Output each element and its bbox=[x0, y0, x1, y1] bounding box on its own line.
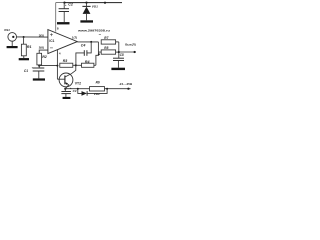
transistor VT2 bbox=[59, 65, 76, 88]
diode VD1 bbox=[82, 3, 90, 21]
wire R4 to output bus bbox=[96, 52, 99, 65]
wire IC1 pin4 to VT2 base bbox=[57, 50, 65, 79]
wire positive supply rail bbox=[56, 2, 122, 4]
svg-text:+: + bbox=[32, 65, 34, 69]
IC1 minus mark bbox=[50, 47, 53, 49]
svg-text:R6: R6 bbox=[96, 81, 100, 85]
wire left bus R7 R8 bbox=[98, 42, 101, 52]
node bus/R8 bbox=[118, 51, 120, 53]
node supply terminal bbox=[127, 88, 129, 90]
svg-text:C3: C3 bbox=[73, 89, 77, 93]
node VT2 emitter / C3 / rail bbox=[64, 88, 66, 90]
svg-text:+: + bbox=[70, 86, 72, 90]
node R4/R8 bbox=[98, 53, 100, 55]
resistor R3 bbox=[60, 63, 76, 67]
svg-text:R8: R8 bbox=[104, 46, 108, 50]
IC1 plus mark bbox=[50, 33, 53, 36]
resistor R7 bbox=[101, 40, 119, 44]
node input/R1 bbox=[23, 36, 25, 38]
capacitor C4 bbox=[76, 42, 91, 65]
resistor R6 bbox=[90, 87, 105, 91]
svg-text:C1: C1 bbox=[24, 69, 28, 73]
node output/C4 bbox=[90, 41, 92, 43]
wire inverting input bbox=[39, 50, 48, 53]
svg-text:C5: C5 bbox=[120, 53, 124, 57]
svg-text:R3: R3 bbox=[63, 59, 68, 63]
svg-text:8: 8 bbox=[57, 27, 59, 31]
svg-text:XS1: XS1 bbox=[3, 28, 10, 32]
resistor R2 bbox=[37, 53, 42, 65]
ground under R1 bbox=[19, 58, 29, 60]
svg-text:R2: R2 bbox=[42, 55, 47, 59]
node VD2 right tap bbox=[106, 88, 108, 90]
node R2/C1/feedback bbox=[38, 65, 40, 67]
node rail junction bbox=[104, 2, 106, 4]
svg-text:C2: C2 bbox=[68, 2, 73, 6]
ground under C3 bbox=[63, 97, 71, 99]
svg-text:1(7): 1(7) bbox=[72, 36, 77, 40]
svg-text:Вых(Л): Вых(Л) bbox=[125, 42, 136, 46]
wire negative rail bbox=[65, 88, 130, 90]
svg-text:4: 4 bbox=[59, 52, 61, 56]
wire right output bus bbox=[118, 42, 120, 58]
wire to output terminal bbox=[119, 51, 136, 53]
svg-text:2(6): 2(6) bbox=[39, 46, 44, 50]
op-amp IC1 bbox=[48, 30, 77, 54]
svg-text:VD2: VD2 bbox=[94, 92, 100, 96]
node pin4/R3 bbox=[56, 65, 58, 67]
capacitor C1 bbox=[33, 66, 45, 79]
capacitor C5 bbox=[113, 58, 124, 67]
node VD2 left tap bbox=[77, 88, 79, 90]
diode VD2 bbox=[78, 89, 107, 96]
svg-text:+: + bbox=[65, 3, 67, 7]
ground under C5 bbox=[111, 68, 125, 70]
svg-text:-24...-25В: -24...-25В bbox=[119, 82, 133, 86]
node rail/VD1 bbox=[85, 1, 87, 3]
resistor R8 bbox=[101, 50, 119, 54]
resistor R4 bbox=[76, 63, 96, 67]
ground after VD1 bbox=[80, 20, 93, 22]
svg-text:IC1: IC1 bbox=[49, 39, 54, 43]
svg-text:C4: C4 bbox=[81, 43, 86, 47]
node output terminal bbox=[134, 51, 136, 53]
svg-text:www.29976358.ru: www.29976358.ru bbox=[77, 28, 110, 32]
svg-text:VD1: VD1 bbox=[92, 4, 98, 8]
wire feedback to R3 bbox=[39, 65, 57, 67]
svg-text:R1: R1 bbox=[27, 45, 32, 49]
resistor R1 bbox=[21, 37, 26, 58]
capacitor C3 bbox=[61, 89, 71, 97]
ground under C1 bbox=[33, 78, 45, 80]
node rail/C2 bbox=[63, 1, 65, 3]
ground at XS1 bbox=[11, 41, 13, 46]
svg-text:ru: ru bbox=[99, 34, 102, 36]
wire IC1 pin 8 to rail bbox=[55, 3, 57, 32]
svg-text:R7: R7 bbox=[104, 36, 108, 40]
node R3/R4/C4/VT2 bbox=[75, 64, 77, 66]
svg-text:VT2: VT2 bbox=[75, 81, 81, 85]
wire input to IC1 noninverting bbox=[17, 36, 48, 38]
wire IC1 output bbox=[77, 41, 98, 43]
svg-text:R4: R4 bbox=[85, 60, 90, 64]
ground after C2 bbox=[57, 22, 70, 24]
svg-text:3(5): 3(5) bbox=[39, 33, 44, 37]
capacitor C2 bbox=[59, 3, 69, 23]
connector XS1 bbox=[8, 33, 17, 42]
